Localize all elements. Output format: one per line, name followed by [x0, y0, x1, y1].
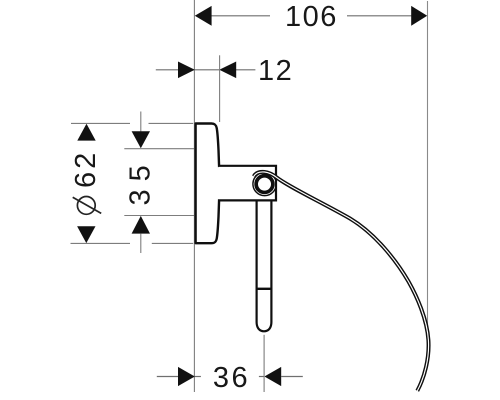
- dimension 106: left arrowhead: [195, 6, 212, 26]
- dimension 12: right lead line: [236, 69, 255, 71]
- svg-text:35: 35: [125, 157, 157, 205]
- rod cross line: [257, 288, 272, 290]
- dimension 12: right arrowhead (pointing left): [219, 62, 236, 79]
- dimension 12: plate-face extension line: [219, 55, 221, 122]
- dimension Ø62: top arrowhead (pointing up): [77, 124, 95, 141]
- dimension 36: left arrowhead (pointing right): [178, 367, 195, 386]
- wall extension line (left, x=194.4): [193, 0, 195, 392]
- dimension 35: top extension line: [124, 148, 196, 150]
- pivot ring: outer circle: [253, 172, 276, 195]
- svg-text:36: 36: [213, 362, 250, 394]
- dimension 35: top arrow tail: [140, 112, 142, 132]
- dimension 35: bottom arrowhead (pointing up): [132, 216, 150, 234]
- dimension 36: left stub: [194, 376, 201, 378]
- dimension diameter-62: diameter symbol slash: [73, 197, 102, 213]
- dimension 36: right lead line: [281, 376, 303, 378]
- dimension 36: right arrowhead (pointing left): [264, 367, 281, 386]
- rod (paper roll holder pin): [257, 201, 272, 331]
- svg-text:62: 62: [70, 150, 102, 188]
- dimension Ø62: bottom arrowhead (pointing down): [77, 226, 95, 243]
- wall plate (escutcheon, side view): [196, 124, 220, 244]
- svg-text:12: 12: [258, 55, 293, 87]
- dimension 106: right arrowhead: [411, 6, 427, 26]
- dimension 35: top arrowhead (pointing down): [132, 131, 150, 148]
- dimension 12: left arrowhead (pointing right): [178, 62, 195, 79]
- spring wire (paper guard): [254, 172, 429, 391]
- dimension 35: bottom arrow tail: [140, 234, 142, 253]
- dimension 12: line between extension lines: [194, 69, 219, 71]
- dimension 12: left lead line: [156, 69, 195, 71]
- dimension 36: left lead line: [157, 376, 195, 378]
- arm (holder bracket): [219, 166, 277, 201]
- dimension diameter-62: diameter symbol circle: [77, 197, 95, 215]
- right extension line (x=427.5): [427, 1, 429, 350]
- dimension 36: rod extension line: [263, 335, 265, 392]
- svg-text:106: 106: [285, 1, 338, 33]
- dimension 36: right stub: [259, 376, 264, 378]
- pivot ring: thick annulus: [256, 176, 273, 193]
- dimension Ø62: top extension line: [71, 122, 130, 124]
- arm fill patch (hides plate face line behind arm): [216, 167, 221, 199]
- dimension Ø62: bottom extension line: [71, 242, 131, 244]
- dimension 106: line segments: [208, 15, 270, 17]
- dimension 35: bottom extension line: [124, 215, 196, 217]
